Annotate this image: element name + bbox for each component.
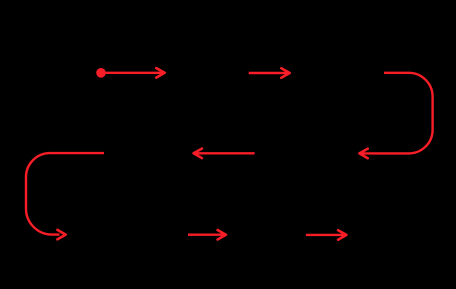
wire: row3 left arrow: [188, 233, 224, 235]
start dot: [96, 68, 106, 78]
arrowhead right u-turn: [359, 149, 367, 159]
wire: left u-turn curve: [26, 153, 104, 235]
wire: row2 middle arrow: [196, 152, 255, 154]
wire: start arrow row1: [103, 72, 163, 74]
arrowhead row2 middle: [194, 149, 202, 159]
wire: row1 middle arrow: [249, 72, 288, 74]
arrowhead row3 right: [338, 230, 346, 240]
arrowhead row3 left: [218, 230, 226, 240]
arrowhead row1 middle: [281, 68, 289, 78]
arrowhead row1 left: [156, 68, 164, 78]
wire: right u-turn curve: [362, 73, 433, 154]
wire: row3 right arrow: [306, 234, 344, 236]
arrowhead left u-turn: [57, 230, 65, 240]
